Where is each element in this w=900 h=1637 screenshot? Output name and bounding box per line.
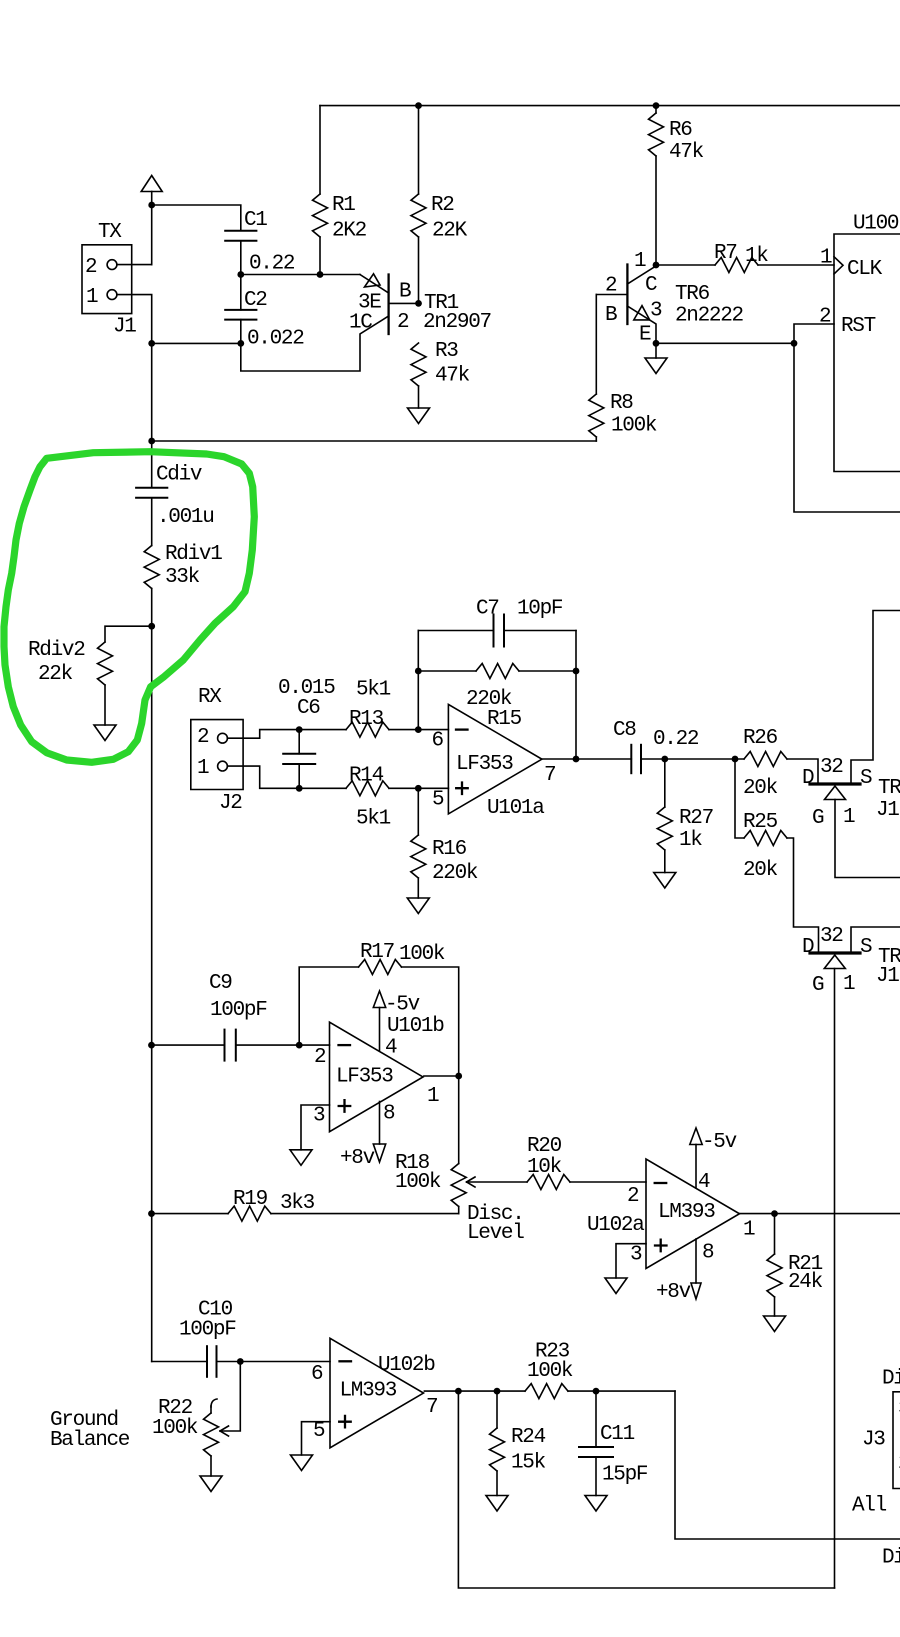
junction RST / emitter wire [791, 340, 798, 347]
capacitor C6 [298, 730, 300, 754]
transistor TR JFET1 channel bar [810, 782, 860, 785]
svg-text:C: C [645, 274, 657, 297]
U101b -5v arrow [373, 991, 385, 1008]
svg-text:1: 1 [843, 806, 855, 829]
ground below R21 [764, 1316, 786, 1332]
IC U100 box [834, 234, 900, 472]
potentiometer R22 [210, 1406, 212, 1413]
wire C1 bottom to node [240, 241, 242, 275]
connector J1 box [82, 245, 132, 314]
U101b plus [339, 1100, 351, 1112]
svg-text:5: 5 [432, 789, 444, 812]
capacitor C11 [595, 1391, 597, 1447]
transistor TR JFET2 channel bar [810, 951, 860, 954]
JFET2 gate wire long vertical [834, 969, 836, 1589]
TR6 emitter lead [627, 306, 656, 343]
svg-text:C11: C11 [600, 1423, 635, 1446]
svg-text:R7: R7 [714, 242, 737, 265]
junction TR6 emitter [653, 340, 660, 347]
U101a plus [456, 783, 468, 795]
ground below R16 [407, 898, 429, 914]
junction rail / C9 [148, 1042, 155, 1049]
svg-text:1k: 1k [679, 829, 702, 852]
resistor R27 [664, 759, 666, 807]
svg-text:100pF: 100pF [210, 999, 267, 1022]
svg-text:24k: 24k [788, 1271, 823, 1294]
resistor R15 [418, 670, 476, 672]
J1 pin 2 circle [107, 260, 117, 270]
green annotation loop [4, 452, 254, 763]
svg-text:.001u: .001u [157, 506, 214, 529]
resistor R19 [152, 1213, 229, 1215]
ground below R3 [408, 408, 430, 424]
svg-text:2: 2 [85, 256, 97, 279]
capacitor Cdiv [136, 487, 167, 489]
svg-text:8: 8 [702, 1242, 714, 1265]
potentiometer R18 [458, 1076, 460, 1164]
U102a plus [655, 1240, 667, 1252]
wire U102b output row [424, 1390, 525, 1392]
U102a -5v arrow [690, 1128, 702, 1145]
svg-text:U100: U100 [853, 213, 899, 236]
ground below R24 [486, 1496, 508, 1512]
svg-text:R17: R17 [360, 941, 394, 964]
junction C9 right / feedback [296, 1042, 303, 1049]
svg-text:20k: 20k [743, 859, 778, 882]
svg-text:3: 3 [650, 300, 662, 323]
wire tap to Rdiv2 [105, 626, 152, 642]
wire RST stub [794, 324, 834, 343]
junction C6 top [296, 726, 303, 733]
resistor R1 [319, 106, 321, 194]
power symbol +V [141, 176, 162, 192]
svg-text:15pF: 15pF [602, 1464, 648, 1487]
svg-text:22K: 22K [432, 219, 468, 242]
junction U101a output [573, 756, 580, 763]
wire C8 to R26 [641, 758, 744, 760]
svg-text:0.022: 0.022 [247, 328, 304, 351]
wire top power rail [320, 105, 900, 107]
JFET1 source lead [851, 611, 900, 785]
svg-text:C9: C9 [209, 972, 232, 995]
junction R15 left [415, 668, 422, 675]
svg-text:TR6: TR6 [675, 283, 710, 306]
svg-text:U102a: U102a [587, 1214, 644, 1237]
junction C11 tap [593, 1388, 600, 1395]
svg-text:B: B [399, 281, 411, 304]
svg-text:1k: 1k [745, 245, 768, 268]
TR1 emitter arrow [365, 274, 381, 287]
resistor R14 [346, 781, 389, 796]
wire J1 pin1 down to ground-side node [117, 295, 152, 344]
svg-text:R6: R6 [669, 119, 692, 142]
svg-text:1: 1 [820, 247, 832, 270]
svg-text:2: 2 [197, 726, 209, 749]
transistor TR6 bar [626, 265, 628, 325]
U102a +8v arrow [695, 1239, 697, 1283]
svg-text:Rdiv1: Rdiv1 [165, 543, 222, 566]
svg-text:RST: RST [841, 315, 876, 338]
connector J3 box [893, 1392, 900, 1489]
svg-text:R1: R1 [332, 194, 355, 217]
svg-text:2: 2 [627, 1185, 639, 1208]
svg-text:C1: C1 [244, 209, 267, 232]
svg-text:Cdiv: Cdiv [156, 464, 202, 487]
J2 pin 2 circle [218, 733, 228, 743]
svg-text:R8: R8 [610, 392, 633, 415]
svg-text:2: 2 [819, 306, 831, 329]
svg-text:R20: R20 [527, 1135, 562, 1158]
op-amp U101a [448, 704, 542, 814]
U102b pin5 ground [302, 1422, 331, 1455]
ground below R27 [654, 873, 676, 889]
junction left node [148, 340, 155, 347]
wire RST net down and right [794, 343, 900, 512]
svg-text:6: 6 [432, 730, 444, 753]
wire TR1 collector path [241, 316, 389, 371]
wire power node down to J1 pin2 [151, 205, 153, 265]
svg-text:R15: R15 [487, 708, 522, 731]
junction Rdiv tap [148, 623, 155, 630]
svg-text:R3: R3 [435, 340, 458, 363]
wire feedback left vertical [417, 631, 419, 730]
wire output to right net [675, 1391, 900, 1539]
svg-text:100pF: 100pF [179, 1319, 236, 1342]
resistor R3 [411, 343, 426, 386]
svg-text:10pF: 10pF [517, 598, 563, 621]
svg-text:100k: 100k [399, 943, 445, 966]
resistor R25 [735, 759, 744, 838]
wire J1 pin2 to rail [117, 264, 152, 266]
svg-text:D: D [802, 767, 814, 790]
U101b minus [339, 1044, 351, 1046]
junction R27 tap [661, 756, 668, 763]
svg-text:100k: 100k [152, 1417, 198, 1440]
svg-text:3: 3 [630, 1244, 642, 1267]
wire J2 pin2 to C6 row [227, 730, 346, 739]
resistor R6 [655, 106, 657, 113]
svg-text:-5v: -5v [702, 1131, 737, 1154]
svg-text:J3: J3 [862, 1429, 885, 1452]
resistor R23 [525, 1384, 568, 1399]
J2 pin 1 circle [218, 761, 228, 771]
svg-text:Rdiv2: Rdiv2 [28, 639, 85, 662]
svg-text:15k: 15k [511, 1452, 546, 1475]
TR6 emitter arrow [634, 306, 650, 320]
svg-text:C2: C2 [244, 289, 267, 312]
svg-text:C7: C7 [476, 598, 499, 621]
svg-text:+8v: +8v [340, 1147, 375, 1170]
resistor R21 [774, 1214, 776, 1254]
svg-text:5k1: 5k1 [356, 808, 391, 831]
TR1 base wire [389, 302, 419, 304]
svg-text:33k: 33k [165, 566, 200, 589]
junction R24 tap [494, 1388, 501, 1395]
svg-text:U101b: U101b [387, 1015, 444, 1038]
svg-text:R16: R16 [432, 838, 467, 861]
U102a pin3 ground [616, 1244, 646, 1278]
JFET1 gate wire [835, 800, 900, 878]
svg-text:32: 32 [820, 925, 843, 948]
wire U102a output [740, 1213, 900, 1215]
svg-text:2n2222: 2n2222 [675, 305, 744, 328]
svg-text:20k: 20k [743, 777, 778, 800]
J1 pin 1 circle [107, 290, 117, 300]
wire node row to TR1 emitter [241, 274, 360, 276]
junction C6 bottom [296, 785, 303, 792]
svg-text:2: 2 [605, 275, 617, 298]
svg-text:B: B [605, 304, 617, 327]
resistor R8 [595, 295, 597, 395]
connector J2 box [191, 720, 243, 790]
R22 wiper arrow [220, 1362, 240, 1432]
ground below Rdiv2 [94, 725, 116, 741]
wire bottom feedback rail [458, 1391, 834, 1588]
junction top rail / R2 [415, 102, 422, 109]
junction TR1 base / R2 / R3 [415, 300, 422, 307]
ground below C11 [585, 1496, 607, 1512]
svg-text:1: 1 [197, 757, 209, 780]
svg-text:RX: RX [198, 686, 222, 709]
svg-text:R14: R14 [349, 765, 384, 788]
R18 wiper arrow [467, 1181, 528, 1183]
svg-text:CLK: CLK [847, 258, 883, 281]
svg-text:Dis: Dis [882, 1368, 900, 1391]
junction R21 tap [771, 1210, 778, 1217]
resistor R17 [359, 960, 402, 975]
resistor R7 [656, 264, 715, 266]
svg-text:Balance: Balance [50, 1429, 130, 1452]
JFET2 source lead [851, 927, 900, 953]
svg-text:5: 5 [313, 1420, 325, 1443]
svg-text:2n2907: 2n2907 [423, 311, 491, 334]
svg-text:LM393: LM393 [658, 1201, 715, 1224]
op-amp U102a [646, 1159, 740, 1269]
junction top rail / R6 [653, 102, 660, 109]
svg-text:8: 8 [383, 1103, 395, 1126]
svg-text:+8v: +8v [656, 1281, 691, 1304]
wire left rail middle [151, 626, 153, 1361]
junction C1/C2 node [237, 271, 244, 278]
svg-text:R2: R2 [431, 194, 454, 217]
resistor R24 [496, 1391, 498, 1428]
svg-text:2: 2 [314, 1046, 326, 1069]
svg-text:Level: Level [467, 1222, 524, 1245]
svg-text:100k: 100k [395, 1171, 441, 1194]
svg-text:7: 7 [544, 764, 555, 787]
svg-text:47k: 47k [669, 141, 704, 164]
svg-text:1: 1 [743, 1219, 755, 1242]
svg-text:TX: TX [98, 221, 122, 244]
svg-text:D: D [802, 936, 814, 959]
junction op-amp pin5 node [415, 785, 422, 792]
svg-text:J1: J1 [876, 799, 899, 822]
junction C2 bottom [237, 340, 244, 347]
U102b plus [339, 1416, 351, 1428]
JFET2 gate arrow [824, 955, 845, 969]
svg-text:R27: R27 [679, 807, 713, 830]
svg-text:-5v: -5v [385, 994, 420, 1017]
junction output left [455, 1388, 462, 1395]
svg-text:32: 32 [820, 756, 843, 779]
junction TR6 collector [653, 262, 660, 269]
wire J2 pin1 to C6 row [227, 766, 346, 788]
wire R17 feedback loop [299, 967, 358, 1045]
svg-text:R25: R25 [743, 811, 778, 834]
junction C10 / R22 wiper [237, 1358, 244, 1365]
svg-text:R26: R26 [743, 727, 778, 750]
svg-text:2: 2 [397, 311, 409, 334]
U101b +8v arrow [379, 1102, 381, 1145]
capacitor C7 [418, 630, 493, 632]
wire left rail upper [151, 343, 153, 487]
svg-text:2K2: 2K2 [332, 219, 367, 242]
ground below R22 [200, 1476, 222, 1492]
svg-text:47k: 47k [435, 365, 470, 388]
svg-text:R13: R13 [349, 708, 384, 731]
junction R1 bottom [317, 271, 324, 278]
svg-text:4: 4 [385, 1037, 397, 1060]
junction U101b output [455, 1073, 462, 1080]
resistor Rdiv2 [98, 642, 113, 685]
resistor R16 [417, 788, 419, 835]
svg-text:100k: 100k [527, 1360, 573, 1383]
svg-text:J1: J1 [113, 316, 136, 339]
svg-text:LF353: LF353 [336, 1066, 393, 1089]
transistor TR1 bar [387, 275, 389, 335]
svg-text:LM393: LM393 [340, 1380, 397, 1403]
svg-text:TR: TR [878, 777, 900, 800]
svg-text:G: G [812, 807, 824, 830]
op-amp U101b [330, 1022, 424, 1131]
svg-text:1: 1 [634, 250, 646, 273]
op-amp U102b [330, 1338, 424, 1448]
U101b pin3 ground [301, 1105, 330, 1150]
junction rail / R8 wire [148, 438, 155, 445]
resistor R20 [527, 1175, 570, 1190]
svg-text:S: S [860, 936, 872, 959]
svg-text:E: E [639, 324, 651, 347]
svg-text:C6: C6 [297, 697, 320, 720]
svg-text:4: 4 [698, 1171, 710, 1194]
resistor R2 [418, 106, 420, 194]
U101a minus [456, 728, 468, 730]
wire node to C2 bottom [152, 342, 241, 344]
wire U101b output [424, 1075, 459, 1077]
wire power node to C1 [152, 205, 241, 231]
svg-text:3k3: 3k3 [280, 1192, 315, 1215]
capacitor C9 [152, 1044, 225, 1046]
svg-text:6: 6 [311, 1363, 323, 1386]
junction R25 tap [732, 756, 739, 763]
svg-text:R19: R19 [233, 1188, 268, 1211]
TR6 collector lead [627, 266, 656, 284]
svg-text:J2: J2 [219, 792, 242, 815]
svg-text:220k: 220k [432, 862, 478, 885]
resistor R26 [744, 752, 787, 767]
svg-text:All: All [852, 1495, 887, 1518]
svg-text:J1: J1 [876, 965, 899, 988]
svg-text:1: 1 [427, 1085, 439, 1108]
TR6 base wire [596, 294, 627, 296]
capacitor C8 [630, 745, 632, 773]
svg-text:0.22: 0.22 [653, 728, 699, 751]
U100 CLK wedge [834, 257, 843, 274]
junction rail / R19 [148, 1210, 155, 1217]
junction power node [148, 202, 155, 209]
U102a minus [655, 1182, 667, 1184]
resistor Rdiv1 [144, 546, 159, 589]
U102b minus [340, 1360, 352, 1362]
svg-text:C8: C8 [613, 719, 636, 742]
TR1 emitter lead [360, 275, 389, 294]
svg-text:S: S [860, 767, 872, 790]
svg-text:Dis: Dis [882, 1547, 900, 1570]
ground below TR6 emitter [655, 343, 657, 358]
svg-text:1C: 1C [349, 312, 372, 335]
svg-text:U102b: U102b [378, 1354, 435, 1377]
JFET1 gate arrow [825, 786, 846, 800]
capacitor C2 [240, 275, 242, 310]
junction R15 right [573, 668, 580, 675]
svg-text:1: 1 [86, 286, 98, 309]
svg-text:10k: 10k [527, 1156, 562, 1179]
svg-text:22k: 22k [38, 663, 73, 686]
svg-text:7: 7 [426, 1396, 437, 1419]
junction op-amp pin6 node [415, 726, 422, 733]
svg-text:R24: R24 [511, 1426, 546, 1449]
wire U101a output row [542, 758, 631, 760]
wire Cdiv to Rdiv1 [151, 498, 153, 546]
wire R8 bottom rail [152, 440, 597, 442]
svg-text:100k: 100k [611, 415, 657, 438]
svg-text:G: G [812, 974, 824, 997]
wire feedback right vertical [575, 631, 577, 760]
wire TR6 emitter row [656, 342, 794, 344]
resistor R13 [346, 722, 389, 737]
svg-text:0.22: 0.22 [249, 253, 295, 276]
svg-text:5k1: 5k1 [356, 679, 391, 702]
svg-text:1: 1 [843, 973, 855, 996]
svg-text:LF353: LF353 [456, 753, 513, 776]
svg-text:U101a: U101a [487, 797, 544, 820]
capacitor C1 [225, 230, 256, 232]
svg-text:3: 3 [313, 1105, 325, 1128]
capacitor C10 [152, 1361, 207, 1363]
